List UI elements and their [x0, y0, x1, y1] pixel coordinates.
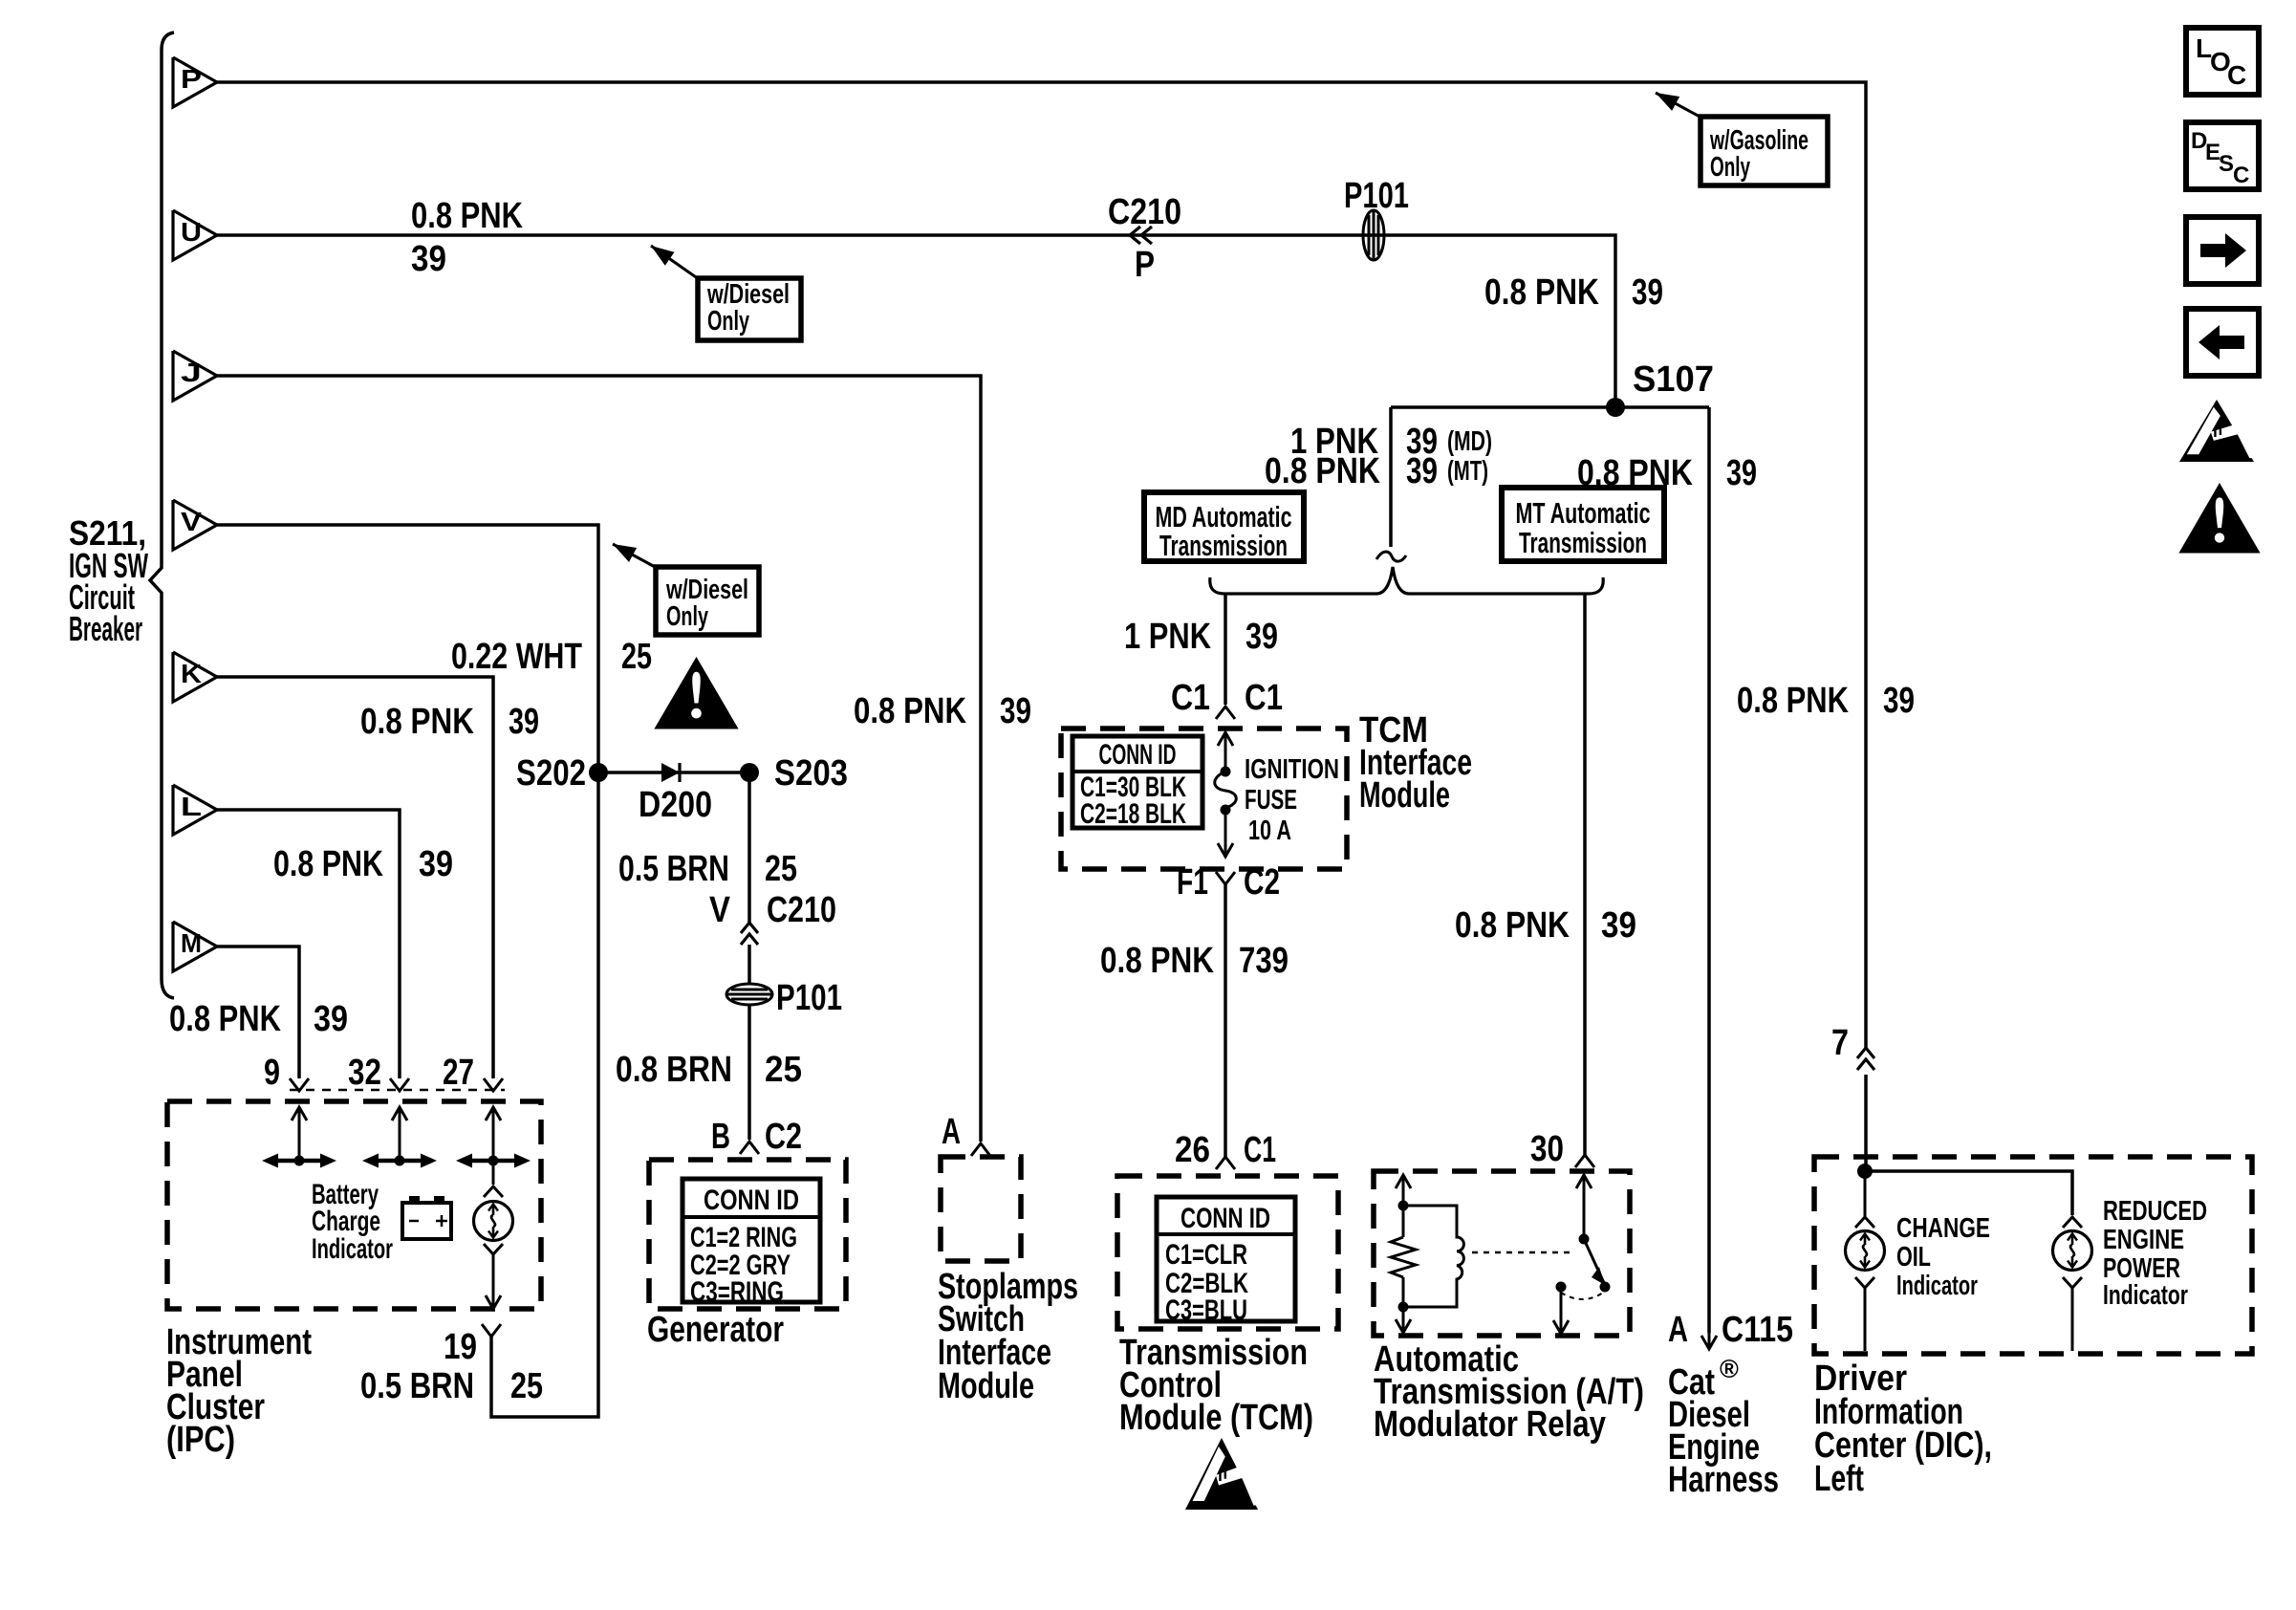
svg-text:C1: C1	[1244, 1130, 1276, 1170]
svg-text:Module: Module	[1359, 775, 1450, 816]
svg-text:0.8 PNK: 0.8 PNK	[1484, 272, 1599, 313]
svg-text:30: 30	[1530, 1129, 1564, 1169]
module Transmission Control Module (TCM) box	[1117, 1176, 1338, 1329]
svg-text:0.8 PNK: 0.8 PNK	[411, 196, 523, 236]
callout w/Diesel Only (U wire)	[651, 246, 675, 266]
svg-text:1 PNK: 1 PNK	[1124, 617, 1211, 657]
module Stoplamps Switch Interface Module box	[941, 1157, 1021, 1261]
icon ESD warning symbol	[2179, 400, 2254, 462]
svg-text:739: 739	[1239, 941, 1289, 981]
svg-text:C210: C210	[767, 890, 836, 930]
svg-text:39: 39	[1000, 691, 1031, 731]
svg-text:(MT): (MT)	[1447, 456, 1488, 487]
svg-text:0.8 PNK: 0.8 PNK	[169, 999, 281, 1039]
svg-text:9: 9	[264, 1053, 280, 1093]
relay switch	[1576, 1175, 1592, 1188]
svg-text:S107: S107	[1633, 359, 1714, 400]
warning symbol (generator)	[657, 660, 736, 728]
svg-text:25: 25	[765, 849, 797, 889]
svg-text:Only: Only	[707, 306, 749, 337]
svg-text:0.8 PNK: 0.8 PNK	[1100, 941, 1214, 981]
svg-text:A: A	[1668, 1310, 1688, 1350]
module Generator box	[649, 1160, 846, 1309]
svg-text:27: 27	[443, 1053, 474, 1093]
svg-text:32: 32	[348, 1053, 381, 1093]
svg-text:39: 39	[314, 999, 348, 1039]
svg-text:Harness: Harness	[1668, 1460, 1779, 1500]
ESD warning symbol (TCM)	[1185, 1438, 1258, 1510]
reduced engine power indicator lamp	[2063, 1217, 2082, 1228]
wire S107 branches	[1391, 405, 1709, 409]
pin 30 connector	[1575, 1155, 1594, 1167]
svg-text:Transmission: Transmission	[1519, 526, 1647, 559]
option brace	[1210, 567, 1603, 594]
svg-text:25: 25	[621, 637, 652, 677]
relay node	[1398, 1302, 1409, 1313]
svg-text:B: B	[711, 1117, 730, 1157]
battery charge indicator symbol	[409, 1196, 420, 1204]
svg-text:CONN ID: CONN ID	[1180, 1203, 1270, 1234]
svg-text:39: 39	[1406, 451, 1438, 491]
option box MT Automatic Transmission	[1502, 488, 1664, 561]
svg-text:®: ®	[1720, 1355, 1739, 1383]
svg-text:IGNITION: IGNITION	[1245, 754, 1339, 785]
terminal triangle K	[173, 652, 217, 702]
svg-text:25: 25	[765, 1050, 802, 1090]
svg-text:26: 26	[1175, 1130, 1210, 1170]
terminal triangle M	[173, 922, 217, 971]
svg-text:19: 19	[444, 1327, 477, 1367]
svg-text:P: P	[1135, 245, 1155, 285]
svg-text:0.8 PNK: 0.8 PNK	[1737, 681, 1849, 721]
relay actuation dashed link	[1472, 1251, 1575, 1254]
connector line C1 (IPC)	[290, 1089, 505, 1092]
svg-text:D200: D200	[639, 785, 712, 825]
fuse IGNITION FUSE 10 A	[1218, 732, 1233, 746]
resistor (relay)	[1402, 1206, 1405, 1237]
svg-text:S202: S202	[516, 753, 586, 794]
svg-text:7: 7	[1831, 1023, 1849, 1063]
svg-text:K: K	[181, 659, 202, 688]
svg-text:C1=CLR: C1=CLR	[1165, 1239, 1247, 1271]
svg-text:39: 39	[1726, 453, 1757, 493]
svg-text:Left: Left	[1814, 1459, 1864, 1499]
svg-text:M: M	[181, 928, 202, 958]
connector table CONN ID (TCM interface)	[1072, 736, 1202, 828]
relay coil	[1403, 1206, 1463, 1307]
svg-text:(MD): (MD)	[1447, 426, 1492, 457]
svg-text:10 A: 10 A	[1248, 816, 1291, 846]
IPC internal bus arrows pin 32	[392, 1107, 407, 1120]
pin 26 C1 connector	[1216, 1157, 1235, 1169]
wire V to S202	[217, 525, 598, 772]
pin C1 connector	[1216, 707, 1235, 719]
svg-text:MT Automatic: MT Automatic	[1516, 496, 1651, 530]
gauge (IPC voltmeter)	[492, 1161, 495, 1185]
svg-text:Module (TCM): Module (TCM)	[1119, 1398, 1313, 1438]
connector table CONN ID (generator)	[682, 1179, 820, 1302]
svg-text:39: 39	[509, 702, 539, 742]
wire F1 to TCM pin 26	[1224, 884, 1227, 1157]
connector C210 pin V (generator wire)	[741, 923, 758, 933]
splice S202	[589, 763, 608, 782]
pin 9 connector	[290, 1078, 309, 1091]
svg-text:39: 39	[1632, 272, 1663, 313]
svg-text:Module: Module	[938, 1366, 1034, 1406]
circuit breaker S211 bus brace	[150, 33, 174, 998]
svg-text:39: 39	[419, 844, 453, 884]
svg-text:39: 39	[1245, 617, 1278, 657]
icon caution symbol	[2181, 486, 2258, 552]
svg-text:U: U	[181, 217, 202, 247]
svg-text:Indicator: Indicator	[1896, 1271, 1978, 1301]
relay coil branch arrow	[1396, 1175, 1411, 1188]
pin A connector (stoplamps)	[971, 1143, 990, 1156]
svg-text:0.5 BRN: 0.5 BRN	[360, 1366, 474, 1406]
change oil indicator lamp	[1855, 1217, 1874, 1228]
option box MD Automatic Transmission	[1144, 492, 1304, 561]
svg-text:L: L	[181, 792, 202, 821]
svg-text:C3=RING: C3=RING	[690, 1276, 784, 1308]
svg-text:Indicator: Indicator	[2103, 1280, 2188, 1311]
pin B C2 connector (generator)	[740, 1142, 759, 1154]
svg-text:P101: P101	[776, 978, 842, 1018]
wire DIC right branch	[1865, 1171, 2072, 1215]
svg-text:Only: Only	[1710, 152, 1750, 183]
wire MT branch to relay pin 30	[1583, 594, 1587, 1155]
wire S107 right branch down to C115	[1707, 407, 1711, 1333]
svg-text:C210: C210	[1108, 192, 1181, 232]
svg-text:39: 39	[411, 239, 446, 279]
module TCM Interface Module box	[1061, 729, 1347, 869]
connector chevron pin 7 DIC	[1857, 1048, 1874, 1058]
svg-text:ENGINE: ENGINE	[2103, 1225, 2184, 1255]
svg-text:OIL: OIL	[1896, 1242, 1931, 1273]
svg-text:A: A	[942, 1112, 961, 1152]
terminal triangle J	[173, 351, 217, 401]
svg-text:CONN ID: CONN ID	[1099, 739, 1177, 771]
svg-text:FUSE: FUSE	[1245, 785, 1297, 816]
pin F1 C2 connector	[1216, 872, 1235, 884]
svg-text:S203: S203	[774, 753, 848, 794]
svg-text:CONN ID: CONN ID	[704, 1185, 799, 1216]
module Driver Information Center box	[1814, 1157, 2252, 1354]
wire J to stoplamps switch interface module	[217, 376, 981, 1142]
terminal triangle L	[173, 785, 217, 835]
callout w/Diesel Only (generator)	[613, 544, 637, 562]
wire MD branch to TCM interface module	[1224, 594, 1227, 705]
svg-text:0.8 PNK: 0.8 PNK	[1265, 451, 1380, 491]
svg-text:Transmission: Transmission	[1159, 529, 1288, 562]
svg-text:CHANGE: CHANGE	[1896, 1213, 1990, 1244]
svg-text:P: P	[181, 64, 202, 94]
svg-text:J: J	[181, 358, 202, 387]
connector C210 pin P (inline)	[1130, 227, 1140, 244]
svg-text:S: S	[2219, 151, 2234, 177]
svg-text:P101: P101	[1344, 176, 1409, 216]
icon back arrow box	[2186, 309, 2259, 376]
svg-text:Breaker: Breaker	[69, 609, 142, 648]
terminal triangle V	[173, 500, 217, 550]
icon LOC box	[2186, 28, 2259, 95]
IPC internal bus arrows pin 9	[292, 1107, 307, 1120]
svg-text:0.8 PNK: 0.8 PNK	[360, 702, 474, 742]
terminal triangle P	[173, 57, 217, 107]
pin 19 connector (IPC)	[482, 1324, 501, 1337]
svg-text:C: C	[2233, 163, 2249, 188]
svg-text:F1: F1	[1177, 862, 1208, 903]
option break squiggle	[1376, 552, 1406, 561]
terminal triangle U	[173, 210, 217, 260]
wire S202 down to IPC pin 19 loop	[491, 772, 598, 1417]
wire M to IPC pin 9	[217, 946, 299, 1078]
wire S203 down to generator	[747, 772, 751, 924]
svg-text:C3=BLU: C3=BLU	[1165, 1295, 1247, 1326]
relay Automatic Transmission (A/T) Modulator Relay box	[1374, 1171, 1630, 1336]
svg-text:V: V	[181, 507, 202, 536]
svg-text:(IPC): (IPC)	[166, 1420, 235, 1460]
wire S107 left branch to option split	[1389, 407, 1393, 547]
connector table CONN ID (TCM)	[1157, 1197, 1295, 1321]
svg-text:C2: C2	[1244, 862, 1280, 903]
svg-text:V: V	[709, 890, 731, 930]
wire L to IPC pin 32	[217, 810, 400, 1078]
svg-text:REDUCED: REDUCED	[2103, 1196, 2207, 1227]
svg-text:Only: Only	[666, 601, 708, 632]
svg-text:Indicator: Indicator	[312, 1233, 393, 1265]
svg-text:39: 39	[1601, 905, 1636, 946]
svg-text:0.8 PNK: 0.8 PNK	[1455, 905, 1570, 946]
svg-text:C2=18 BLK: C2=18 BLK	[1080, 798, 1186, 830]
wire K to IPC pin 27	[217, 677, 493, 1078]
svg-text:Generator: Generator	[647, 1310, 784, 1350]
svg-text:Modulator Relay: Modulator Relay	[1374, 1404, 1606, 1445]
svg-text:25: 25	[510, 1366, 543, 1406]
wire U to S107	[217, 235, 1615, 407]
IPC internal bus arrows pin 27	[486, 1107, 501, 1120]
icon DESC box	[2186, 122, 2259, 189]
grommet P101 (generator wire)	[726, 984, 772, 1005]
diode D200	[598, 771, 749, 774]
svg-text:C1: C1	[1171, 678, 1210, 718]
relay node	[1398, 1201, 1409, 1211]
svg-text:C: C	[2227, 60, 2246, 90]
module Instrument Panel Cluster box	[167, 1101, 541, 1309]
svg-text:0.5 BRN: 0.5 BRN	[618, 849, 729, 889]
svg-text:0.22 WHT: 0.22 WHT	[451, 637, 582, 677]
splice S107	[1606, 398, 1625, 417]
svg-text:C1: C1	[1245, 678, 1283, 718]
DIC junction node	[1857, 1164, 1873, 1179]
svg-text:0.8 BRN: 0.8 BRN	[616, 1050, 732, 1090]
pin 27 connector	[484, 1078, 503, 1091]
grommet P101 (U wire)	[1363, 210, 1384, 260]
svg-text:0.8 PNK: 0.8 PNK	[854, 691, 966, 731]
wire P to DIC	[217, 82, 1866, 1050]
svg-text:C2: C2	[765, 1117, 802, 1157]
icon forward arrow box	[2186, 217, 2259, 284]
pin 32 connector	[390, 1078, 409, 1091]
svg-text:C115: C115	[1722, 1310, 1793, 1350]
svg-text:0.8 PNK: 0.8 PNK	[273, 844, 383, 884]
svg-text:39: 39	[1883, 681, 1915, 721]
splice S203	[740, 763, 759, 782]
callout w/Gasoline Only	[1656, 93, 1679, 111]
